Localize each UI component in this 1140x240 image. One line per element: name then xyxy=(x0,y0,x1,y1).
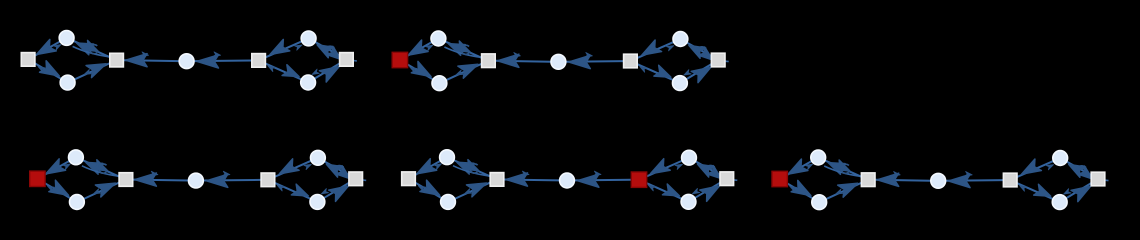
node G2 topC xyxy=(431,31,446,46)
self-loop G3 near Rsq xyxy=(335,166,344,175)
self-loop G2 near Rsq xyxy=(697,47,706,56)
wire G5 cenC-Msq2 xyxy=(945,179,1003,182)
wire G3 botC2-Rsq xyxy=(323,182,349,198)
wire G4 topC2-Msq2 xyxy=(645,161,682,177)
node G4 topC2 xyxy=(682,150,697,165)
wire G2 Msq2-botC2 xyxy=(637,64,674,80)
wire G2 Msq-topC xyxy=(445,41,482,58)
head G5 botC2->Rsq xyxy=(1071,181,1094,202)
head G4 topC->Lsq xyxy=(414,159,437,180)
wire G4 stub right of Rsq xyxy=(734,179,737,181)
head G1 Msq->cenC xyxy=(141,52,149,58)
head G1 topC->Lsq xyxy=(33,39,56,60)
node G4 botC xyxy=(441,195,456,210)
head G1 topC2->Rsq xyxy=(326,46,344,63)
head G3 topC2->Rsq xyxy=(336,166,354,183)
head G4 Msq->topC xyxy=(455,157,474,174)
wire G3 topC->Msq arc xyxy=(82,166,120,177)
wire G4 Msq-topC xyxy=(453,160,490,177)
wire G4 Rsq-topC2 xyxy=(695,161,721,175)
wire G2 botC2-Rsq xyxy=(686,64,712,80)
head G4 topC2->Msq2 xyxy=(647,159,670,180)
wire G5 Msq2-botC2 xyxy=(1017,183,1054,199)
head G3 botC2->Rsq xyxy=(329,180,352,201)
wire G2 topC-Lsq xyxy=(406,42,432,57)
head G5 botC2->Msq2 xyxy=(1018,184,1026,192)
node G1 Lsq xyxy=(21,53,35,67)
head G2 Msq->topC xyxy=(446,38,465,55)
head G2 botC2->Rsq xyxy=(691,62,714,83)
node G5 botC xyxy=(812,195,827,210)
node G2 topC2 xyxy=(673,32,688,47)
node G1 Msq xyxy=(110,53,124,67)
head G4 Rsq->botC2 xyxy=(691,188,699,196)
wire G3 Msq-topC xyxy=(82,160,119,177)
head G2 topC->Lsq xyxy=(405,40,428,61)
wire G5 topC->Msq arc xyxy=(824,166,862,177)
head G5 Msq2->topC2 xyxy=(1046,162,1054,169)
head G5 Msq->botC xyxy=(835,189,843,196)
head G5 Msq2->botC2 xyxy=(1034,184,1053,201)
node G4 Msq2 (red) xyxy=(631,172,646,187)
node G3 Msq2 xyxy=(261,173,275,187)
wire G1 cenC-Msq2 xyxy=(194,60,252,63)
self-loop G1 near Rsq xyxy=(325,46,334,55)
head G3 Rsq->topC2 xyxy=(324,159,344,177)
head G5 Msq->topC xyxy=(826,157,845,174)
head G4 Msq->cenC xyxy=(522,171,530,177)
head G4 topC->Msq xyxy=(463,160,481,176)
head G2 topC->Msq xyxy=(455,41,473,57)
wire G4 topC->Msq arc xyxy=(453,166,491,177)
node G3 topC2 xyxy=(311,150,326,165)
wire G1 Msq-cenC xyxy=(124,59,180,62)
head G4 Msq->botC xyxy=(463,189,471,196)
head G4 Lsq->botC xyxy=(420,180,443,201)
node G2 Msq2 xyxy=(624,54,638,68)
head G4 Msq2->cenC xyxy=(577,174,599,187)
head G5 botC->Lsq xyxy=(788,184,796,192)
head G3 Msq2->topC2 xyxy=(304,162,312,169)
head G2 Rsq->botC2 xyxy=(683,70,691,78)
wire G4 Msq2-botC2 xyxy=(645,183,682,199)
node G5 Msq xyxy=(861,173,875,187)
head G2 Lsq->topC xyxy=(426,43,434,51)
node G4 botC2 xyxy=(681,194,696,209)
graph G1 xyxy=(21,31,357,91)
node G3 topC xyxy=(69,150,84,165)
wire G2 Rsq-topC2 xyxy=(687,42,713,56)
wire G2 stub right of Rsq xyxy=(725,60,728,62)
node G5 cenC xyxy=(931,173,946,188)
head G5 cenC->Msq2 xyxy=(965,171,973,177)
wire G4 Msq-cenC xyxy=(504,179,560,182)
head G2 botC->Msq xyxy=(458,58,481,78)
head G3 cenC->Msq xyxy=(135,173,157,186)
node G3 botC xyxy=(70,195,85,210)
head G5 topC->Msq xyxy=(835,160,853,176)
head G5 topC2->Rsq xyxy=(1078,166,1096,183)
head G1 topC2->Msq2 xyxy=(267,39,290,60)
node G4 Lsq xyxy=(402,172,416,186)
head G2 Msq->cenC xyxy=(513,52,521,58)
node G5 Lsq (red) xyxy=(772,171,787,186)
node G3 Msq xyxy=(119,173,133,187)
wire G1 Msq2-botC2 xyxy=(265,63,302,79)
head G2 topC2->Msq2 xyxy=(639,40,662,61)
node G2 Lsq (red) xyxy=(392,52,407,67)
head G2 Msq2->cenC xyxy=(569,55,591,68)
self-loop G2 near Msq xyxy=(461,45,470,54)
head G2 botC->Lsq xyxy=(409,65,417,73)
head G3 Msq->cenC xyxy=(151,171,159,177)
node G3 botC2 xyxy=(310,195,325,210)
wire G3 cenC-Msq2 xyxy=(203,179,261,182)
graph G5 xyxy=(772,150,1109,210)
node G4 Msq xyxy=(490,173,504,187)
head G1 Msq->botC xyxy=(83,69,91,76)
wire G3 botC-Msq xyxy=(83,182,119,199)
wire G5 botC-Msq xyxy=(826,183,862,200)
self-loop G4 near Msq xyxy=(470,164,479,173)
graph G2 xyxy=(392,31,728,91)
node G2 cenC xyxy=(551,54,566,69)
self-loop G4 near Rsq xyxy=(706,166,715,175)
wire G1 botC2-Rsq xyxy=(314,63,340,79)
wire G5 stub right of Rsq xyxy=(1105,179,1108,181)
head G4 cenC->Msq2 xyxy=(594,171,602,177)
head G2 Msq->botC xyxy=(455,70,463,77)
node G5 Rsq xyxy=(1091,172,1105,186)
wire G4 botC2-Rsq xyxy=(695,182,721,198)
wire G1 stub right of Rsq xyxy=(354,60,357,62)
node G4 topC xyxy=(440,150,455,165)
node G5 botC2 xyxy=(1052,195,1067,210)
head G4 Lsq->topC xyxy=(434,162,442,170)
head G1 botC2->Msq2 xyxy=(267,64,275,72)
head G3 Lsq->topC xyxy=(63,162,71,170)
node G5 topC2 xyxy=(1053,151,1068,166)
head G3 Rsq->botC2 xyxy=(320,188,328,196)
head G1 botC->Msq xyxy=(86,58,109,78)
node G2 botC xyxy=(432,76,447,91)
graph G4 xyxy=(402,150,738,210)
node G1 topC2 xyxy=(301,31,316,46)
head G3 Msq->topC xyxy=(83,157,102,174)
wire G1 Msq-topC xyxy=(73,41,110,58)
self-loop G5 near Msq xyxy=(841,164,850,173)
self-loop G1 near Msq xyxy=(90,45,99,54)
node G5 Msq2 xyxy=(1003,173,1017,187)
head G5 Lsq->botC xyxy=(791,180,814,201)
head G3 topC->Lsq xyxy=(43,159,66,180)
head G2 Msq2->botC2 xyxy=(654,65,673,82)
wire G2 Lsq-botC xyxy=(406,64,434,80)
wire G1 topC2-Msq2 xyxy=(265,41,302,57)
head G5 topC2->Msq2 xyxy=(1018,159,1041,180)
head G5 Lsq->topC xyxy=(805,162,813,170)
head G3 cenC->Msq2 xyxy=(223,171,231,177)
head G5 topC->Lsq xyxy=(785,159,808,180)
node G4 cenC xyxy=(560,173,575,188)
node G3 Lsq (red) xyxy=(30,171,45,186)
head G5 botC->Msq xyxy=(838,177,861,197)
head G2 cenC->Msq2 xyxy=(585,52,593,58)
head G5 cenC->Msq xyxy=(877,173,899,186)
wire G5 Msq-topC xyxy=(825,160,862,177)
head G1 Msq2->topC2 xyxy=(295,43,303,50)
wire G3 Msq2-botC2 xyxy=(274,183,311,199)
graph G3 xyxy=(30,150,366,210)
head G4 botC2->Rsq xyxy=(700,180,723,201)
wire G1 Rsq-topC2 xyxy=(315,42,341,56)
node G2 Msq xyxy=(482,54,496,68)
head G2 botC2->Msq2 xyxy=(639,65,647,73)
node G1 topC xyxy=(59,31,74,46)
head G1 Rsq->botC2 xyxy=(311,69,319,77)
head G1 cenC->Msq2 xyxy=(213,52,221,58)
head G3 topC->Msq xyxy=(92,160,110,176)
head G3 Msq2->botC2 xyxy=(291,184,310,201)
head G2 Lsq->botC xyxy=(411,61,434,82)
head G1 Msq2->cenC xyxy=(197,55,219,68)
head G4 Msq2->botC2 xyxy=(662,184,681,201)
head G4 Msq2->topC2 xyxy=(675,162,683,169)
wire G1 topC-Lsq xyxy=(34,41,60,56)
node G4 Rsq xyxy=(720,172,734,186)
wire G4 botC-Msq xyxy=(454,182,490,199)
node G1 Msq2 xyxy=(252,54,266,68)
head G1 Rsq->topC2 xyxy=(314,40,334,58)
wire G3 topC-Lsq xyxy=(44,161,70,176)
wire G5 Lsq-botC xyxy=(786,183,814,199)
self-loop G3 near Msq xyxy=(99,164,108,173)
node G2 Rsq xyxy=(711,53,725,67)
self-loop G5 near Rsq xyxy=(1077,166,1086,175)
wire G2 topC2-Msq2 xyxy=(637,42,674,58)
wire G1 topC->Msq arc xyxy=(73,46,111,57)
head G1 Msq->topC xyxy=(74,38,93,55)
wire G3 Lsq-botC xyxy=(43,182,71,198)
node G2 botC2 xyxy=(673,76,688,91)
head G3 Lsq->botC xyxy=(49,180,72,201)
node G1 Rsq xyxy=(340,53,354,67)
head G2 Rsq->topC2 xyxy=(686,40,706,58)
head G3 botC->Msq xyxy=(95,177,118,197)
node G1 botC2 xyxy=(301,75,316,90)
head G2 Msq2->topC2 xyxy=(666,43,674,50)
wire G4 cenC-Msq2 xyxy=(574,179,632,182)
wire G4 topC-Lsq xyxy=(415,161,441,176)
head G3 Msq->botC xyxy=(92,189,100,196)
head G1 botC->Lsq xyxy=(37,64,45,72)
head G2 topC2->Rsq xyxy=(698,47,716,64)
wire G2 Msq-cenC xyxy=(495,60,551,63)
node G3 cenC xyxy=(189,173,204,188)
head G5 Msq->cenC xyxy=(893,171,901,177)
head G1 botC2->Rsq xyxy=(319,61,342,82)
node G1 botC xyxy=(60,75,75,90)
wire G5 Rsq-topC2 xyxy=(1066,161,1092,175)
head G4 botC->Lsq xyxy=(417,184,425,192)
head G3 botC->Lsq xyxy=(46,184,54,192)
head G3 Msq2->cenC xyxy=(206,174,228,187)
node G3 Rsq xyxy=(349,172,363,186)
head G4 cenC->Msq xyxy=(506,173,528,186)
head G4 botC->Msq xyxy=(466,177,489,197)
node G1 cenC xyxy=(179,54,194,69)
head G1 cenC->Msq xyxy=(126,54,148,67)
wire G2 botC-Msq xyxy=(446,64,482,81)
wire G3 Msq-cenC xyxy=(133,179,189,182)
head G2 cenC->Msq xyxy=(497,54,519,67)
wire G3 Rsq-topC2 xyxy=(324,161,350,175)
wire G5 Msq-cenC xyxy=(875,179,931,182)
head G3 topC2->Msq2 xyxy=(276,159,299,180)
head G5 Rsq->topC2 xyxy=(1066,159,1086,177)
wire G5 botC2-Rsq xyxy=(1066,183,1092,199)
wire G5 topC2-Msq2 xyxy=(1017,161,1054,177)
wire G2 topC->Msq arc xyxy=(444,47,482,58)
head G1 topC->Msq xyxy=(83,40,101,56)
head G1 Lsq->botC xyxy=(40,61,63,82)
wire G2 cenC-Msq2 xyxy=(565,60,623,63)
wire G5 topC-Lsq xyxy=(786,161,812,176)
wire G1 Lsq-botC xyxy=(34,63,62,79)
wire G4 Lsq-botC xyxy=(415,182,443,198)
wire G3 topC2-Msq2 xyxy=(274,161,311,177)
head G1 Msq2->botC2 xyxy=(282,65,301,82)
head G4 botC2->Msq2 xyxy=(647,183,655,191)
head G3 botC2->Msq2 xyxy=(276,183,284,191)
head G1 Lsq->topC xyxy=(54,42,62,50)
head G4 topC2->Rsq xyxy=(707,166,725,183)
wire G3 stub right of Rsq xyxy=(363,179,366,181)
head G5 Msq2->cenC xyxy=(949,174,971,187)
head G4 Rsq->topC2 xyxy=(695,159,715,177)
node G5 topC xyxy=(811,150,826,165)
head G5 Rsq->botC2 xyxy=(1062,189,1070,197)
wire G1 botC-Msq xyxy=(74,63,110,80)
